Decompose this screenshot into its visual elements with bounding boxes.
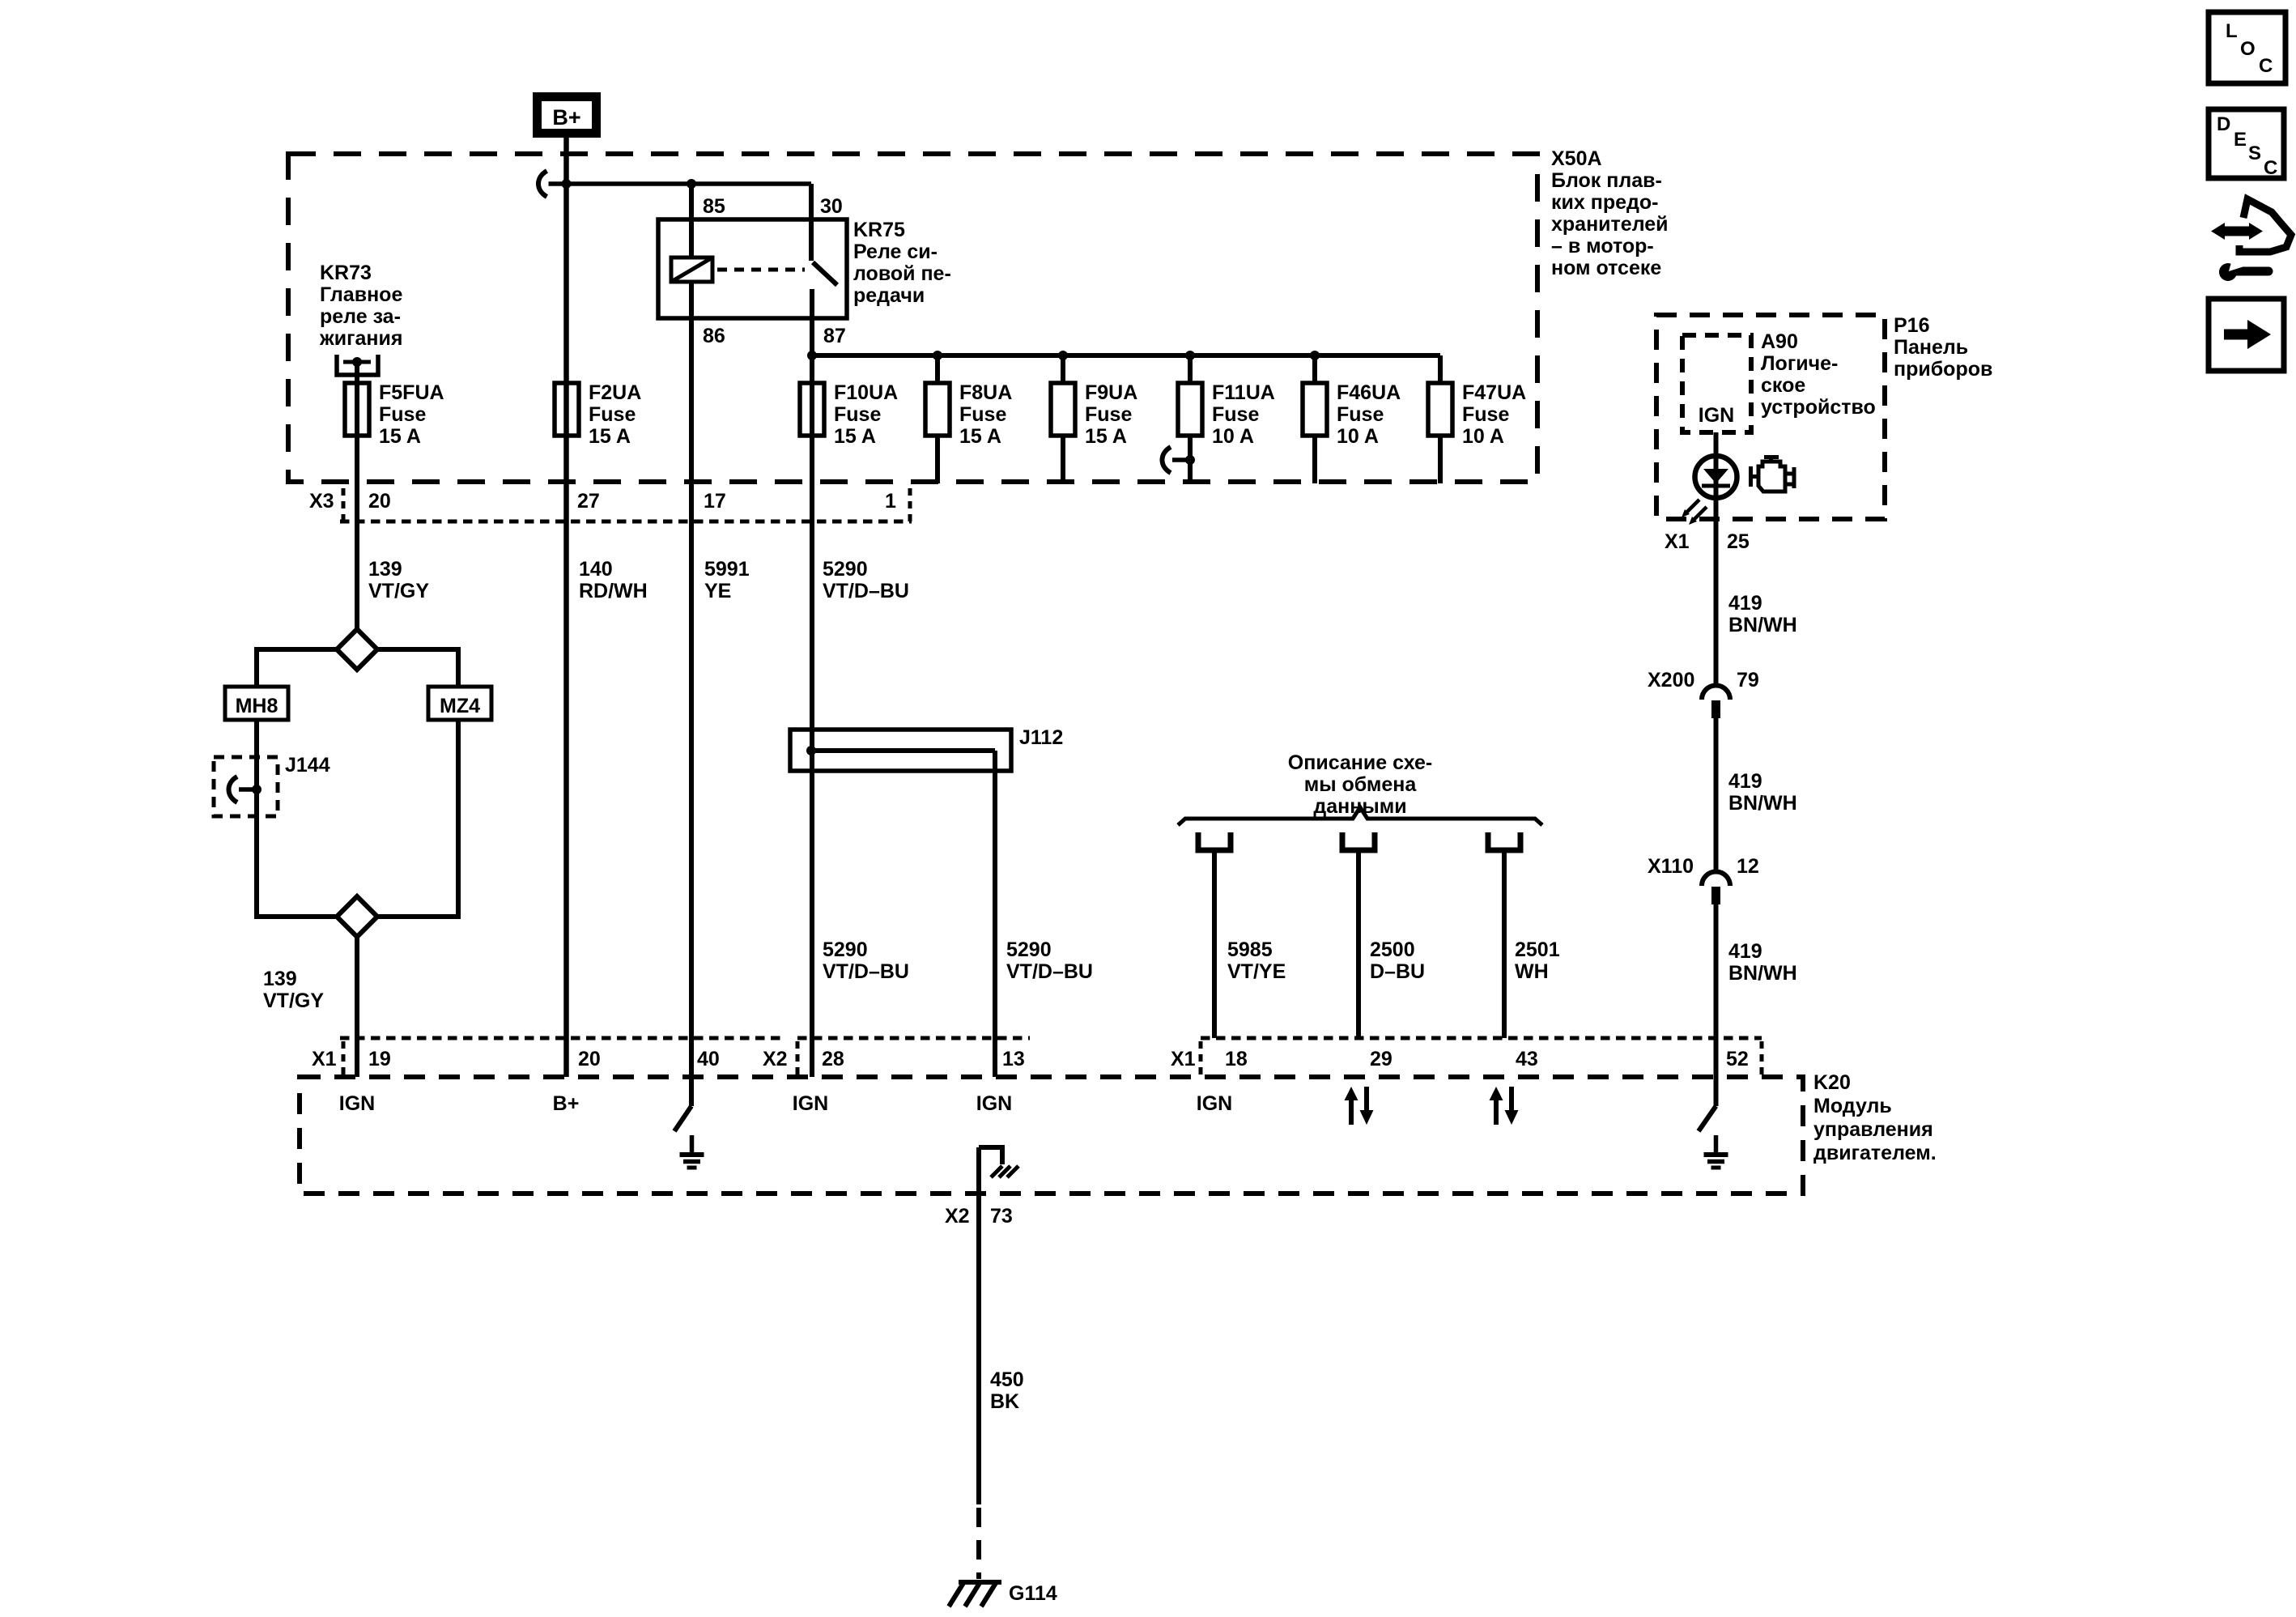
svg-text:Fuse: Fuse [379, 403, 426, 426]
svg-text:O: O [2240, 38, 2256, 60]
svg-text:Реле си-: Реле си- [853, 240, 938, 263]
svg-text:X50A: X50A [1551, 147, 1602, 170]
svg-text:F47UA: F47UA [1462, 381, 1526, 404]
svg-text:140: 140 [579, 558, 613, 581]
svg-text:Описание схе-: Описание схе- [1288, 751, 1432, 774]
svg-text:F8UA: F8UA [959, 381, 1012, 404]
svg-text:C: C [2264, 157, 2277, 179]
svg-text:BN/WH: BN/WH [1728, 792, 1797, 815]
svg-text:10 A: 10 A [1212, 425, 1254, 448]
svg-text:13: 13 [1002, 1048, 1025, 1070]
svg-text:2501: 2501 [1515, 938, 1560, 961]
svg-text:ловой пе-: ловой пе- [853, 262, 951, 285]
svg-text:F11UA: F11UA [1212, 381, 1275, 404]
svg-text:F46UA: F46UA [1337, 381, 1401, 404]
svg-text:Fuse: Fuse [1212, 403, 1259, 426]
svg-text:18: 18 [1225, 1048, 1248, 1070]
svg-text:Fuse: Fuse [834, 403, 881, 426]
svg-text:12: 12 [1737, 855, 1759, 878]
svg-text:BN/WH: BN/WH [1728, 614, 1797, 636]
svg-text:19: 19 [368, 1048, 391, 1070]
svg-text:17: 17 [704, 490, 726, 513]
svg-text:P16: P16 [1894, 314, 1929, 337]
svg-text:F10UA: F10UA [834, 381, 898, 404]
svg-text:WH: WH [1515, 960, 1549, 983]
svg-text:A90: A90 [1761, 330, 1798, 353]
svg-text:YE: YE [704, 580, 731, 602]
svg-text:E: E [2234, 129, 2247, 151]
svg-text:5985: 5985 [1227, 938, 1273, 961]
svg-text:29: 29 [1370, 1048, 1392, 1070]
svg-text:IGN: IGN [1699, 404, 1734, 427]
svg-text:VT/GY: VT/GY [368, 580, 429, 602]
svg-text:85: 85 [703, 195, 725, 218]
svg-text:X1: X1 [1665, 530, 1690, 553]
svg-text:43: 43 [1516, 1048, 1538, 1070]
svg-text:28: 28 [822, 1048, 844, 1070]
svg-text:Fuse: Fuse [959, 403, 1006, 426]
svg-text:Fuse: Fuse [1337, 403, 1384, 426]
svg-text:10 A: 10 A [1462, 425, 1504, 448]
svg-text:хранителей: хранителей [1551, 213, 1669, 236]
svg-text:BK: BK [990, 1390, 1019, 1413]
svg-text:IGN: IGN [976, 1092, 1012, 1115]
svg-text:B+: B+ [553, 1092, 580, 1115]
svg-text:Модуль: Модуль [1813, 1095, 1892, 1117]
svg-text:419: 419 [1728, 592, 1762, 615]
svg-text:139: 139 [263, 968, 297, 990]
svg-text:5290: 5290 [823, 938, 868, 961]
svg-text:B+: B+ [552, 105, 580, 130]
svg-text:Fuse: Fuse [1085, 403, 1132, 426]
svg-text:Fuse: Fuse [1462, 403, 1509, 426]
svg-text:KR75: KR75 [853, 219, 905, 241]
svg-text:приборов: приборов [1894, 358, 1992, 381]
svg-text:D–BU: D–BU [1370, 960, 1425, 983]
svg-text:мы обмена: мы обмена [1304, 773, 1418, 796]
svg-text:ном отсеке: ном отсеке [1551, 257, 1661, 279]
svg-text:RD/WH: RD/WH [579, 580, 648, 602]
svg-text:25: 25 [1727, 530, 1750, 553]
svg-text:20: 20 [578, 1048, 601, 1070]
svg-text:73: 73 [990, 1205, 1013, 1228]
svg-text:419: 419 [1728, 940, 1762, 963]
svg-text:K20: K20 [1813, 1071, 1851, 1094]
svg-text:79: 79 [1737, 669, 1759, 691]
svg-text:VT/D–BU: VT/D–BU [823, 580, 909, 602]
svg-text:X2: X2 [763, 1048, 788, 1070]
svg-text:– в мотор-: – в мотор- [1551, 235, 1654, 257]
svg-text:MZ4: MZ4 [440, 695, 480, 717]
svg-text:VT/D–BU: VT/D–BU [823, 960, 909, 983]
svg-text:450: 450 [990, 1368, 1024, 1391]
svg-text:5290: 5290 [1006, 938, 1052, 961]
svg-text:S: S [2248, 143, 2261, 164]
svg-text:15 A: 15 A [1085, 425, 1127, 448]
svg-text:L: L [2226, 20, 2238, 42]
svg-text:F5FUA: F5FUA [379, 381, 444, 404]
svg-text:VT/D–BU: VT/D–BU [1006, 960, 1093, 983]
svg-text:MH8: MH8 [236, 695, 278, 717]
svg-text:редачи: редачи [853, 284, 925, 307]
svg-text:ское: ское [1761, 374, 1805, 397]
svg-text:X110: X110 [1648, 855, 1694, 878]
svg-text:1: 1 [885, 490, 896, 513]
svg-text:419: 419 [1728, 770, 1762, 793]
svg-text:Блок плав-: Блок плав- [1551, 169, 1662, 192]
svg-text:F9UA: F9UA [1085, 381, 1137, 404]
svg-text:2500: 2500 [1370, 938, 1415, 961]
svg-text:27: 27 [577, 490, 600, 513]
svg-text:139: 139 [368, 558, 402, 581]
svg-text:X2: X2 [945, 1205, 970, 1228]
svg-text:двигателем.: двигателем. [1813, 1142, 1937, 1164]
svg-text:J144: J144 [285, 754, 330, 777]
svg-text:X1: X1 [1171, 1048, 1196, 1070]
svg-text:20: 20 [368, 490, 391, 513]
svg-text:жигания: жигания [319, 327, 402, 350]
svg-text:D: D [2217, 113, 2230, 135]
svg-text:30: 30 [820, 195, 843, 218]
svg-text:реле за-: реле за- [320, 305, 401, 328]
svg-text:15 A: 15 A [959, 425, 1001, 448]
svg-text:IGN: IGN [339, 1092, 375, 1115]
svg-text:10 A: 10 A [1337, 425, 1379, 448]
svg-text:Главное: Главное [320, 283, 402, 306]
svg-text:VT/YE: VT/YE [1227, 960, 1286, 983]
svg-text:40: 40 [697, 1048, 720, 1070]
svg-text:5290: 5290 [823, 558, 868, 581]
svg-text:BN/WH: BN/WH [1728, 962, 1797, 985]
svg-text:G114: G114 [1009, 1582, 1057, 1605]
svg-text:KR73: KR73 [320, 262, 372, 284]
svg-text:5991: 5991 [704, 558, 750, 581]
svg-text:устройство: устройство [1761, 396, 1876, 419]
svg-text:Логиче-: Логиче- [1761, 352, 1838, 375]
svg-text:VT/GY: VT/GY [263, 989, 324, 1012]
svg-text:X200: X200 [1648, 669, 1694, 691]
svg-text:C: C [2259, 55, 2273, 77]
svg-text:управления: управления [1813, 1118, 1933, 1141]
svg-text:IGN: IGN [793, 1092, 828, 1115]
svg-text:15 A: 15 A [379, 425, 421, 448]
svg-text:87: 87 [823, 325, 846, 347]
svg-text:ких предо-: ких предо- [1551, 191, 1658, 214]
svg-text:X3: X3 [309, 490, 334, 513]
svg-text:F2UA: F2UA [589, 381, 641, 404]
svg-text:Fuse: Fuse [589, 403, 636, 426]
svg-text:86: 86 [703, 325, 725, 347]
svg-text:Панель: Панель [1894, 336, 1968, 359]
svg-text:IGN: IGN [1197, 1092, 1232, 1115]
svg-text:X1: X1 [312, 1048, 337, 1070]
svg-text:15 A: 15 A [589, 425, 631, 448]
svg-text:J112: J112 [1019, 726, 1063, 749]
svg-text:15 A: 15 A [834, 425, 876, 448]
svg-text:52: 52 [1726, 1048, 1749, 1070]
